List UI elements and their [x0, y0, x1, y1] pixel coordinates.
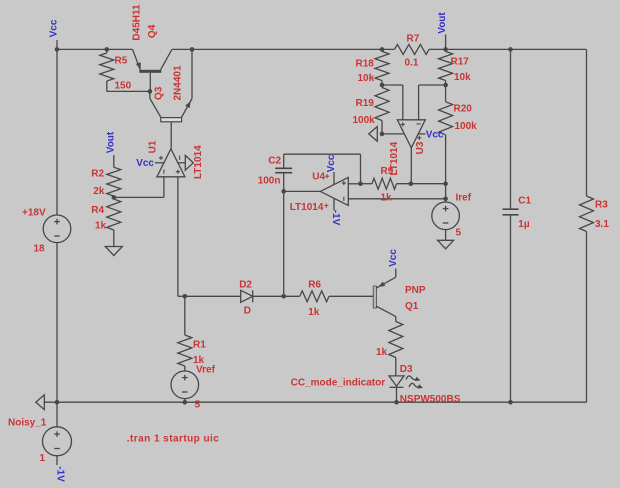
- svg-text:1: 1: [40, 453, 46, 464]
- svg-text:Vout: Vout: [437, 12, 448, 34]
- svg-text:LT1014: LT1014: [290, 202, 324, 213]
- svg-text:Vcc: Vcc: [49, 19, 60, 37]
- svg-text:Noisy_1: Noisy_1: [8, 418, 47, 429]
- svg-text:-1V: -1V: [55, 466, 66, 482]
- svg-text:Vout: Vout: [106, 131, 117, 153]
- svg-text:C1: C1: [518, 196, 531, 207]
- svg-text:D: D: [244, 306, 251, 317]
- svg-text:R5: R5: [115, 56, 128, 67]
- svg-text:150: 150: [115, 81, 132, 92]
- svg-text:2k: 2k: [93, 186, 105, 197]
- svg-text:C2: C2: [268, 155, 281, 166]
- svg-text:Vcc: Vcc: [388, 249, 399, 267]
- svg-text:D3: D3: [400, 364, 413, 375]
- svg-text:+18V: +18V: [22, 208, 46, 219]
- svg-text:R20: R20: [454, 104, 473, 115]
- svg-text:Q3: Q3: [153, 86, 164, 100]
- svg-text:Q1: Q1: [405, 301, 419, 312]
- svg-text:5: 5: [456, 228, 462, 239]
- svg-text:5: 5: [195, 400, 201, 411]
- svg-text:NSPW500BS: NSPW500BS: [400, 394, 461, 405]
- svg-text:R18: R18: [356, 59, 375, 70]
- svg-text:10k: 10k: [454, 72, 471, 83]
- svg-text:D2: D2: [239, 280, 252, 291]
- svg-text:1k: 1k: [95, 221, 107, 232]
- svg-text:100k: 100k: [353, 115, 376, 126]
- svg-text:2N4401: 2N4401: [172, 65, 183, 100]
- svg-text:100n: 100n: [258, 175, 281, 186]
- svg-text:-1V: -1V: [330, 210, 341, 226]
- svg-text:R9: R9: [381, 166, 394, 177]
- svg-text:1k: 1k: [381, 193, 393, 204]
- svg-text:Vcc: Vcc: [426, 130, 444, 141]
- svg-text:R6: R6: [308, 280, 321, 291]
- svg-text:1k: 1k: [308, 307, 320, 318]
- svg-text:U1: U1: [147, 140, 158, 153]
- svg-text:0.1: 0.1: [405, 58, 419, 69]
- svg-text:U4: U4: [312, 171, 325, 182]
- svg-text:100k: 100k: [455, 121, 478, 132]
- svg-text:.tran 1 startup uic: .tran 1 startup uic: [127, 434, 219, 445]
- svg-text:Vcc: Vcc: [136, 158, 154, 169]
- svg-text:CC_mode_indicator: CC_mode_indicator: [291, 378, 386, 389]
- svg-text:1k: 1k: [376, 347, 388, 358]
- svg-text:Vref: Vref: [196, 364, 216, 375]
- svg-text:18: 18: [34, 244, 46, 255]
- svg-text:R3: R3: [595, 200, 608, 211]
- svg-text:R17: R17: [451, 57, 470, 68]
- svg-text:3.1: 3.1: [595, 219, 609, 230]
- svg-text:R7: R7: [407, 34, 420, 45]
- svg-text:U3: U3: [415, 141, 426, 154]
- svg-text:Iref: Iref: [456, 193, 472, 204]
- svg-text:R4: R4: [91, 205, 104, 216]
- svg-text:R2: R2: [91, 168, 104, 179]
- svg-text:Vcc: Vcc: [326, 154, 337, 172]
- svg-text:1µ: 1µ: [518, 219, 530, 230]
- svg-text:PNP: PNP: [405, 285, 426, 296]
- svg-text:Q4: Q4: [147, 24, 158, 38]
- svg-text:R1: R1: [193, 340, 206, 351]
- svg-text:10k: 10k: [358, 73, 375, 84]
- svg-text:R19: R19: [356, 98, 375, 109]
- svg-text:D45H11: D45H11: [132, 4, 143, 41]
- svg-text:LT1014: LT1014: [193, 145, 204, 179]
